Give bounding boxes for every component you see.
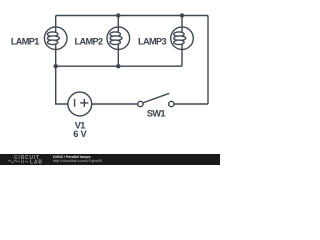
- wire left vertical to battery: [56, 66, 68, 104]
- wire bottom bus: [56, 65, 182, 67]
- wire switch to right corner: [174, 103, 208, 105]
- svg-text:6 V: 6 V: [73, 129, 87, 139]
- svg-text:LAMP2: LAMP2: [75, 36, 103, 46]
- wire lamp3 branch: [181, 16, 183, 67]
- junction dot bottom lamp2: [116, 64, 120, 68]
- svg-text:http://circuitlab.com/c/7qkm58: http://circuitlab.com/c/7qkm58: [53, 159, 102, 163]
- svg-text:DrBill / Parallel lamps: DrBill / Parallel lamps: [53, 155, 91, 159]
- junction dot bottom lamp1: [54, 64, 58, 68]
- svg-text:SW1: SW1: [147, 109, 165, 119]
- wire top bus: [56, 15, 208, 17]
- watermark logo squiggle: [8, 160, 28, 164]
- battery V1: [68, 92, 92, 116]
- lamp LAMP2: [107, 27, 130, 50]
- wire lamp1 branch: [55, 16, 57, 67]
- junction dot top lamp2: [116, 13, 120, 17]
- lamp LAMP1: [44, 27, 67, 50]
- switch SW1: [138, 93, 174, 106]
- svg-text:LAMP3: LAMP3: [138, 36, 166, 46]
- watermark url text: [53, 159, 102, 163]
- watermark bar: [0, 154, 220, 165]
- wire lamp2 branch: [117, 16, 119, 67]
- lamp LAMP3: [171, 27, 194, 50]
- wire battery to switch: [92, 103, 138, 105]
- svg-text:LAMP1: LAMP1: [11, 36, 39, 46]
- svg-text:LAB: LAB: [30, 159, 43, 165]
- watermark title text: [53, 155, 91, 159]
- junction dot top lamp3: [180, 13, 184, 17]
- wire right vertical: [207, 16, 209, 105]
